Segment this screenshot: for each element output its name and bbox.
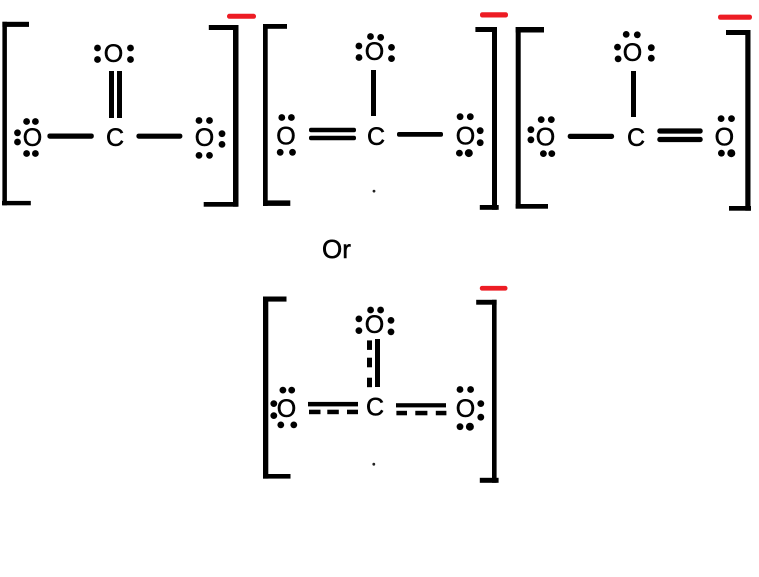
charge minus S1	[227, 14, 256, 19]
single bond O-C left S1	[47, 134, 93, 139]
svg-text:C: C	[106, 124, 124, 152]
lone pairs O left S2	[277, 114, 296, 156]
bracket right S4	[476, 300, 498, 483]
single bond C-O right S1	[136, 134, 182, 139]
svg-text:O: O	[365, 38, 384, 66]
double bond C=O right S3	[657, 128, 702, 142]
stray dot below S2	[373, 190, 376, 193]
svg-text:C: C	[366, 394, 384, 422]
charge minus S3	[718, 15, 752, 20]
lone pairs O top S3	[614, 31, 655, 62]
lone pairs O left S3	[528, 116, 556, 157]
svg-text:O: O	[23, 124, 42, 152]
lone pairs O top S4	[356, 307, 395, 336]
svg-text:C: C	[627, 124, 645, 152]
bracket left S1	[2, 22, 31, 206]
bracket right S2	[475, 27, 498, 210]
lone pairs O top S2	[356, 33, 395, 62]
single bond O-C left S3	[568, 134, 614, 139]
bracket right S1	[204, 25, 239, 207]
lone pairs O right S2	[456, 113, 484, 157]
lone pairs O left S4	[270, 387, 297, 429]
bracket right S3	[726, 30, 751, 211]
single bond O-C vertical S2	[371, 70, 376, 116]
svg-text:Or: Or	[322, 234, 351, 264]
lone pairs O right S1	[196, 117, 226, 159]
lone pairs O right S3	[718, 115, 736, 157]
svg-text:O: O	[715, 124, 734, 152]
double bond C=O vertical S1	[109, 71, 122, 118]
bracket left S3	[516, 27, 548, 209]
svg-text:C: C	[367, 123, 385, 151]
lone pairs O left S1	[14, 118, 39, 157]
svg-text:O: O	[276, 123, 295, 151]
stray dot below S4	[372, 463, 375, 466]
svg-text:O: O	[536, 124, 555, 152]
bracket left S4	[263, 297, 291, 479]
svg-text:O: O	[277, 395, 296, 423]
charge minus S2	[480, 12, 508, 17]
single bond C-O right S2	[397, 132, 443, 137]
svg-text:O: O	[365, 311, 384, 339]
bracket left S2	[263, 24, 290, 206]
partial double bond O~C vertical S4 (dashed + solid)	[367, 339, 380, 387]
partial double bond C~O right S4 (solid + dashed)	[396, 403, 446, 415]
double bond O=C left S2	[309, 128, 356, 141]
svg-text:O: O	[623, 39, 642, 67]
single bond O-C vertical S3	[631, 71, 636, 117]
partial double bond O~C left S4 (solid + dashed)	[308, 402, 358, 414]
lone pairs O right S4	[457, 386, 485, 431]
svg-text:O: O	[195, 124, 214, 152]
svg-text:O: O	[456, 123, 475, 151]
svg-text:O: O	[456, 395, 475, 423]
charge minus S4	[480, 286, 508, 291]
lone pairs O top S1	[94, 45, 134, 63]
svg-text:O: O	[104, 40, 123, 68]
